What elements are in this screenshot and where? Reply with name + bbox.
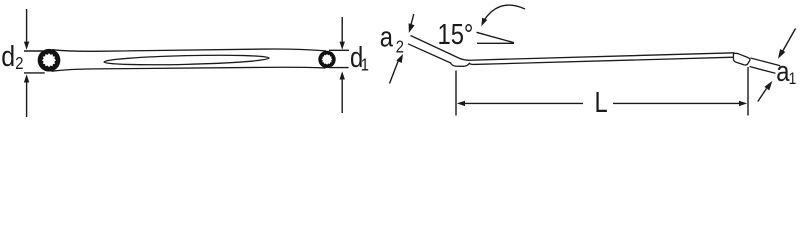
svg-text:d: d: [1, 40, 15, 72]
dimension a1 lower arrow: [758, 89, 767, 102]
angle wedge sloped line: [477, 32, 515, 42]
side view: right knob: [733, 53, 750, 65]
dimension d1 top tick: [329, 49, 349, 51]
ring d2 annulus (12-point): [38, 49, 61, 72]
dimension d2 bottom arrow: [26, 82, 28, 117]
svg-text:2: 2: [15, 53, 23, 73]
side view: right head slab bottom line: [750, 67, 776, 74]
svg-text:a: a: [380, 20, 393, 53]
svg-text:L: L: [595, 86, 608, 119]
svg-text:a: a: [776, 55, 789, 88]
side view: left head slab top line: [411, 36, 735, 61]
dimension d2 top tick: [24, 50, 44, 52]
svg-text:2: 2: [396, 37, 404, 57]
dimension d1 bottom tick: [329, 67, 349, 69]
dimension L line left segment: [464, 102, 583, 104]
wrench top-view shaft bottom edge: [52, 67, 326, 71]
svg-text:1: 1: [361, 55, 369, 75]
ring d1 annulus (12-point): [318, 51, 335, 68]
dimension d2 bottom tick: [24, 72, 45, 74]
curved angle arrow: [485, 5, 526, 19]
svg-text:1: 1: [789, 70, 797, 89]
dimension a2 lower arrow: [390, 61, 399, 84]
side view: left head slab bottom line: [408, 44, 734, 67]
dimension a2 upper arrow: [411, 14, 414, 25]
shaft recess ellipse: [104, 54, 269, 67]
dimension d2 top arrow: [26, 9, 28, 43]
angle wedge horizontal line: [477, 42, 514, 44]
dimension L line right segment: [613, 102, 740, 104]
svg-text:15°: 15°: [438, 18, 474, 51]
side view: right head slab top line: [751, 58, 781, 66]
dimension a1 upper arrow: [783, 29, 796, 52]
wrench top-view shaft fill: [52, 49, 327, 71]
dimension d1 top arrow: [341, 17, 343, 43]
wrench top-view shaft top edge: [52, 49, 326, 51]
dimension L right extension line: [747, 67, 749, 116]
dimension L left extension line: [455, 71, 457, 116]
dimension d1 bottom arrow: [341, 79, 343, 113]
